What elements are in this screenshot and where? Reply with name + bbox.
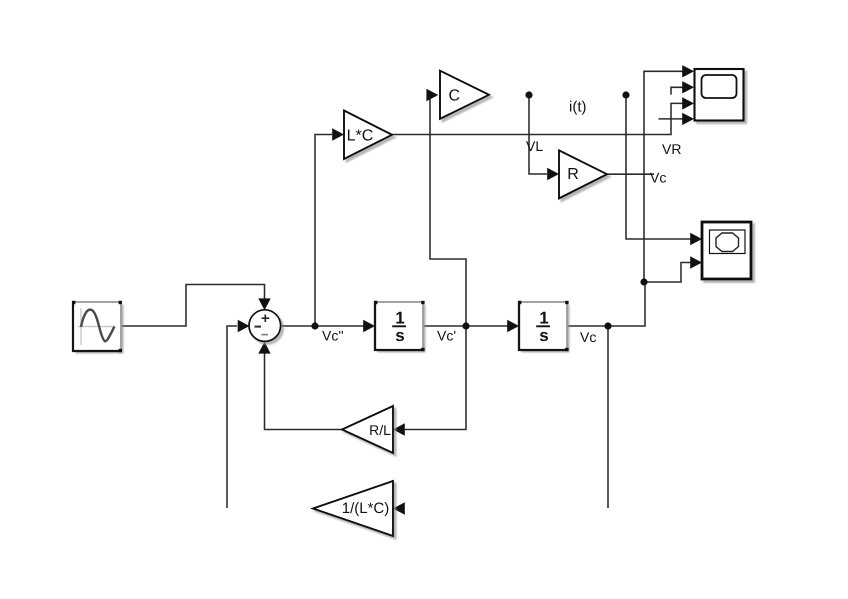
svg-text:Vc': Vc'	[437, 328, 456, 344]
svg-text:i(t): i(t)	[569, 99, 587, 116]
svg-text:1: 1	[395, 309, 404, 328]
svg-text:1: 1	[539, 309, 548, 328]
svg-text:Vc: Vc	[580, 329, 596, 345]
svg-text:R/L: R/L	[369, 422, 391, 438]
svg-text:Vc: Vc	[650, 170, 666, 186]
svg-text:s: s	[395, 326, 404, 345]
svg-text:R: R	[567, 166, 579, 183]
svg-text:L*C: L*C	[347, 127, 374, 144]
svg-text:VL: VL	[526, 138, 543, 154]
svg-text:VR: VR	[662, 141, 681, 157]
svg-text:1/(L*C): 1/(L*C)	[342, 500, 390, 517]
svg-text:Vc'': Vc''	[322, 328, 344, 344]
svg-text:C: C	[449, 88, 461, 105]
svg-text:s: s	[539, 326, 548, 345]
